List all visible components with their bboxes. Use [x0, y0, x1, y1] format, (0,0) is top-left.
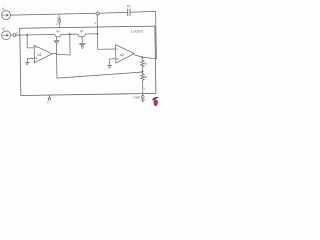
svg-text:Q1: Q1 — [56, 29, 60, 33]
wire main input rail to Q1 — [27, 33, 54, 35]
A1 plus input wire — [27, 57, 34, 59]
svg-text:I2: I2 — [2, 27, 5, 31]
pin terminal bottom left — [48, 94, 50, 97]
current source I2 — [2, 31, 11, 40]
svg-text:GND: GND — [133, 95, 139, 99]
wire pin down to node and A2 input — [97, 15, 115, 50]
ground at A2 plus input — [107, 59, 112, 68]
wire C1 to right corner, down right side — [130, 11, 156, 59]
IC box U1 — [20, 26, 156, 95]
capacitor C1 — [128, 9, 130, 16]
svg-text:LOG101: LOG101 — [131, 29, 143, 33]
resistor R2 — [141, 57, 145, 71]
pin terminal GND — [141, 95, 144, 98]
svg-text:2: 2 — [47, 100, 49, 104]
svg-text:I1: I1 — [2, 7, 5, 11]
svg-text:R1: R1 — [144, 75, 148, 79]
A2 output wire — [134, 54, 156, 59]
node junction — [26, 34, 28, 36]
wire feedback rail to Q1 leg — [57, 72, 143, 78]
svg-text:P1: P1 — [57, 16, 61, 20]
A1 output wire — [52, 53, 56, 55]
svg-text:Q2: Q2 — [80, 29, 84, 33]
wire top (I1 to C1) — [10, 12, 127, 15]
node junction — [69, 33, 71, 35]
A2 minus sign — [117, 48, 119, 50]
op-amp A1 — [34, 45, 52, 63]
svg-text:R2: R2 — [144, 62, 148, 66]
ground at A1 plus input — [25, 58, 30, 64]
terminal circle below Q2 — [81, 47, 83, 49]
svg-text:5: 5 — [17, 32, 19, 35]
svg-text:4: 4 — [56, 22, 58, 26]
svg-text:5: 5 — [144, 86, 146, 90]
svg-text:A2: A2 — [120, 53, 124, 57]
op-amp A2 — [116, 44, 135, 63]
watermark logo — [152, 97, 159, 106]
node junction — [97, 33, 99, 35]
wire pin into box to node — [16, 34, 27, 36]
A1 inverting input wire from node — [27, 35, 34, 48]
pin terminal I2 input — [13, 34, 16, 37]
svg-text:3: 3 — [94, 21, 96, 25]
resistor R1 — [141, 72, 145, 96]
wire Q1 emitter down to A1 output and feedback rail — [55, 44, 58, 79]
transistor Q2 — [77, 34, 85, 37]
svg-text:C1: C1 — [127, 4, 131, 8]
svg-text:A1: A1 — [37, 53, 41, 57]
node junction — [141, 56, 143, 58]
transistor Q1 — [55, 34, 62, 37]
wire Q2 to corner node — [86, 33, 98, 35]
A2 plus input wire — [109, 58, 115, 60]
wire node down to A1 output wire — [56, 34, 70, 55]
wire I2 to pin — [10, 34, 13, 36]
wire Q1-Q2 rail — [61, 33, 77, 35]
pin terminal on top wire — [96, 12, 99, 15]
ground symbol — [141, 98, 145, 102]
pin terminal P1 (top, near x60) — [58, 20, 61, 23]
node junction divider — [142, 71, 144, 73]
wire stub pin P1 — [58, 14, 60, 27]
current source I1 — [2, 11, 11, 20]
A1 minus sign — [35, 47, 37, 49]
